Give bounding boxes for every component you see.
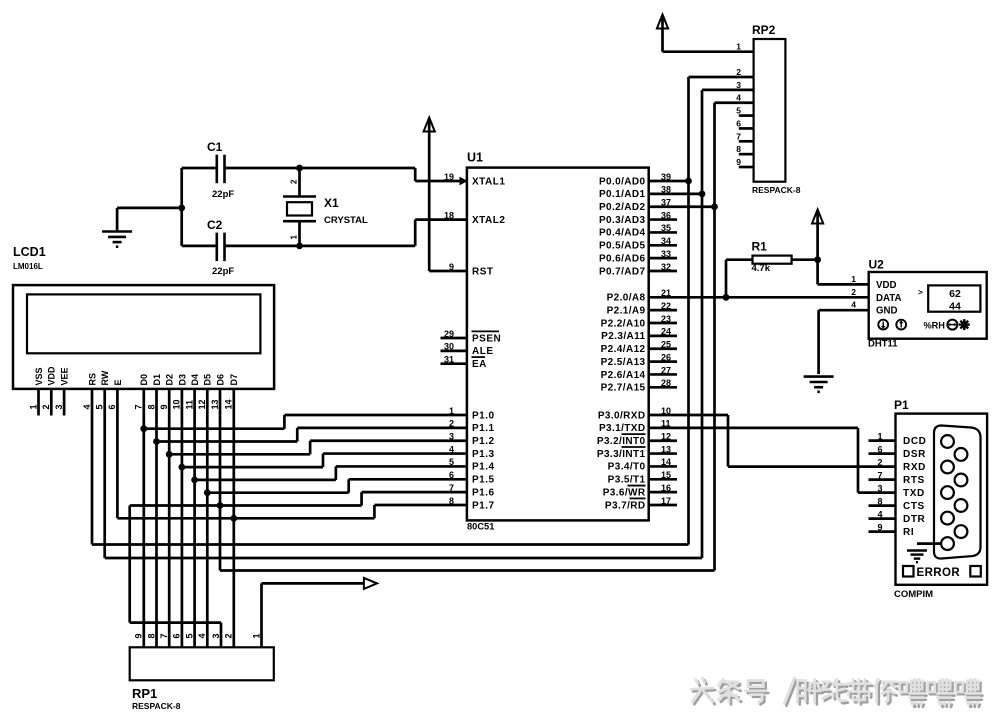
svg-text:1: 1 bbox=[736, 42, 741, 52]
svg-text:P3.0/RXD: P3.0/RXD bbox=[598, 410, 646, 421]
svg-text:VEE: VEE bbox=[60, 367, 70, 385]
svg-text:RESPACK-8: RESPACK-8 bbox=[132, 701, 181, 711]
svg-text:6: 6 bbox=[172, 633, 182, 638]
svg-text:CRYSTAL: CRYSTAL bbox=[324, 215, 368, 226]
svg-text:X1: X1 bbox=[324, 196, 339, 210]
svg-text:4: 4 bbox=[877, 509, 882, 519]
svg-text:P1.4: P1.4 bbox=[472, 462, 495, 473]
svg-text:P0.1/AD1: P0.1/AD1 bbox=[599, 189, 646, 200]
svg-text:P2.1/A9: P2.1/A9 bbox=[607, 305, 646, 316]
svg-text:P3.3/INT1: P3.3/INT1 bbox=[597, 449, 646, 460]
svg-text:1: 1 bbox=[290, 235, 299, 240]
svg-text:D5: D5 bbox=[203, 374, 213, 386]
svg-text:8: 8 bbox=[146, 633, 156, 638]
svg-text:12: 12 bbox=[197, 399, 207, 409]
svg-text:10: 10 bbox=[172, 399, 182, 409]
svg-text:D6: D6 bbox=[215, 374, 225, 386]
svg-text:8: 8 bbox=[146, 404, 156, 409]
svg-text:RS: RS bbox=[87, 373, 97, 386]
svg-text:5: 5 bbox=[184, 633, 194, 638]
svg-text:9: 9 bbox=[134, 633, 144, 638]
svg-text:ERROR: ERROR bbox=[917, 567, 961, 579]
svg-text:18: 18 bbox=[444, 210, 454, 220]
svg-text:7: 7 bbox=[877, 470, 882, 480]
svg-text:D4: D4 bbox=[190, 374, 200, 386]
svg-text:RP1: RP1 bbox=[132, 686, 157, 701]
svg-text:COMPIM: COMPIM bbox=[894, 589, 933, 600]
svg-text:TXD: TXD bbox=[903, 488, 925, 499]
svg-text:7: 7 bbox=[134, 404, 144, 409]
svg-text:6: 6 bbox=[736, 118, 741, 128]
svg-text:4.7k: 4.7k bbox=[752, 263, 771, 274]
svg-text:P2.6/A14: P2.6/A14 bbox=[601, 370, 646, 381]
svg-text:11: 11 bbox=[184, 400, 194, 410]
svg-text:P0.4/AD4: P0.4/AD4 bbox=[599, 228, 646, 239]
svg-text:P0.3/AD3: P0.3/AD3 bbox=[599, 215, 646, 226]
svg-text:LCD1: LCD1 bbox=[13, 245, 46, 259]
svg-text:P1.1: P1.1 bbox=[472, 423, 495, 434]
svg-text:22pF: 22pF bbox=[212, 189, 234, 200]
svg-text:1: 1 bbox=[851, 274, 856, 284]
svg-text:XTAL1: XTAL1 bbox=[472, 176, 505, 187]
svg-text:P0.2/AD2: P0.2/AD2 bbox=[599, 202, 646, 213]
svg-text:4: 4 bbox=[82, 404, 92, 409]
svg-text:2: 2 bbox=[290, 179, 299, 184]
svg-text:C2: C2 bbox=[207, 218, 223, 232]
svg-text:P1.7: P1.7 bbox=[472, 500, 495, 511]
svg-text:9: 9 bbox=[159, 404, 169, 409]
svg-text:P2.3/A11: P2.3/A11 bbox=[601, 331, 645, 342]
svg-text:U2: U2 bbox=[869, 258, 885, 272]
svg-text:7: 7 bbox=[736, 131, 741, 141]
svg-text:E: E bbox=[113, 379, 123, 385]
svg-text:ALE: ALE bbox=[472, 346, 494, 357]
svg-text:P2.5/A13: P2.5/A13 bbox=[601, 357, 646, 368]
svg-text:5: 5 bbox=[95, 404, 105, 409]
svg-text:D3: D3 bbox=[177, 374, 187, 386]
svg-text:U1: U1 bbox=[467, 151, 483, 165]
svg-text:3: 3 bbox=[54, 404, 64, 409]
svg-text:D1: D1 bbox=[152, 374, 162, 386]
svg-text:14: 14 bbox=[224, 399, 234, 409]
svg-text:2: 2 bbox=[877, 457, 882, 467]
svg-text:P1.6: P1.6 bbox=[472, 487, 495, 498]
svg-text:P2.7/A15: P2.7/A15 bbox=[601, 383, 646, 394]
svg-text:3: 3 bbox=[877, 483, 882, 493]
svg-text:EA: EA bbox=[472, 359, 487, 370]
svg-text:2: 2 bbox=[224, 633, 234, 638]
svg-text:P1.3: P1.3 bbox=[472, 449, 495, 460]
svg-text:7: 7 bbox=[159, 633, 169, 638]
svg-text:44: 44 bbox=[949, 301, 961, 313]
svg-text:19: 19 bbox=[444, 172, 454, 182]
svg-text:P1.2: P1.2 bbox=[472, 436, 495, 447]
svg-text:5: 5 bbox=[736, 106, 741, 116]
svg-text:P0.7/AD7: P0.7/AD7 bbox=[599, 266, 646, 277]
svg-text:C1: C1 bbox=[207, 140, 223, 154]
svg-text:P3.4/T0: P3.4/T0 bbox=[608, 462, 646, 473]
svg-text:RI: RI bbox=[903, 527, 914, 538]
svg-text:RW: RW bbox=[100, 370, 110, 385]
svg-text:P3.1/TXD: P3.1/TXD bbox=[599, 423, 646, 434]
svg-text:DHT11: DHT11 bbox=[868, 339, 898, 350]
svg-text:P0.5/AD5: P0.5/AD5 bbox=[599, 241, 646, 252]
svg-text:P2.0/A8: P2.0/A8 bbox=[607, 293, 646, 304]
svg-text:R1: R1 bbox=[752, 240, 768, 254]
svg-text:2: 2 bbox=[851, 287, 856, 297]
svg-text:1: 1 bbox=[251, 633, 261, 638]
svg-text:P3.2/INT0: P3.2/INT0 bbox=[597, 436, 646, 447]
svg-text:D0: D0 bbox=[139, 374, 149, 386]
svg-text:DSR: DSR bbox=[903, 449, 926, 460]
svg-text:P3.6/WR: P3.6/WR bbox=[603, 487, 646, 498]
svg-text:80C51: 80C51 bbox=[467, 522, 494, 532]
svg-text:%RH: %RH bbox=[924, 321, 946, 331]
svg-text:LM016L: LM016L bbox=[13, 262, 43, 271]
svg-text:1: 1 bbox=[28, 404, 38, 409]
svg-text:8: 8 bbox=[736, 144, 741, 154]
svg-text:P0.0/AD0: P0.0/AD0 bbox=[599, 176, 646, 187]
svg-text:22pF: 22pF bbox=[212, 266, 234, 277]
svg-text:PSEN: PSEN bbox=[472, 333, 501, 344]
svg-text:VSS: VSS bbox=[34, 367, 44, 385]
svg-text:4: 4 bbox=[851, 300, 856, 310]
svg-text:4: 4 bbox=[736, 93, 741, 103]
svg-text:9: 9 bbox=[736, 157, 741, 167]
svg-text:6: 6 bbox=[107, 404, 117, 409]
svg-text:RXD: RXD bbox=[903, 462, 926, 473]
svg-text:62: 62 bbox=[949, 288, 961, 300]
svg-text:P2.2/A10: P2.2/A10 bbox=[601, 318, 646, 329]
svg-text:RESPACK-8: RESPACK-8 bbox=[752, 185, 801, 195]
svg-text:RTS: RTS bbox=[903, 475, 925, 486]
svg-text:DATA: DATA bbox=[876, 293, 901, 304]
svg-text:2: 2 bbox=[736, 67, 741, 77]
svg-text:P1.5: P1.5 bbox=[472, 475, 495, 486]
svg-text:P3.7/RD: P3.7/RD bbox=[605, 500, 646, 511]
svg-text:GND: GND bbox=[876, 306, 898, 317]
svg-text:P1.0: P1.0 bbox=[472, 410, 495, 421]
svg-text:2: 2 bbox=[41, 404, 51, 409]
svg-text:VDD: VDD bbox=[876, 280, 896, 291]
svg-text:8: 8 bbox=[877, 496, 882, 506]
svg-text:DCD: DCD bbox=[903, 436, 926, 447]
svg-text:6: 6 bbox=[877, 444, 882, 454]
svg-text:3: 3 bbox=[736, 80, 741, 90]
svg-text:RP2: RP2 bbox=[752, 23, 776, 37]
svg-text:D7: D7 bbox=[229, 374, 239, 386]
svg-text:1: 1 bbox=[877, 431, 882, 441]
svg-text:XTAL2: XTAL2 bbox=[472, 215, 505, 226]
svg-text:P1: P1 bbox=[894, 398, 909, 412]
svg-text:P3.5/T1: P3.5/T1 bbox=[608, 475, 646, 486]
svg-text:13: 13 bbox=[210, 399, 220, 409]
svg-text:RST: RST bbox=[472, 266, 494, 277]
svg-text:D2: D2 bbox=[165, 374, 175, 386]
svg-text:VDD: VDD bbox=[47, 366, 57, 386]
svg-text:4: 4 bbox=[197, 633, 207, 638]
svg-text:DTR: DTR bbox=[903, 514, 926, 525]
svg-text:9: 9 bbox=[877, 522, 882, 532]
svg-text:CTS: CTS bbox=[903, 501, 925, 512]
svg-text:3: 3 bbox=[211, 633, 221, 638]
svg-text:P0.6/AD6: P0.6/AD6 bbox=[599, 253, 646, 264]
svg-text:9: 9 bbox=[449, 262, 454, 272]
svg-text:>: > bbox=[918, 288, 923, 297]
svg-text:P2.4/A12: P2.4/A12 bbox=[601, 344, 646, 355]
